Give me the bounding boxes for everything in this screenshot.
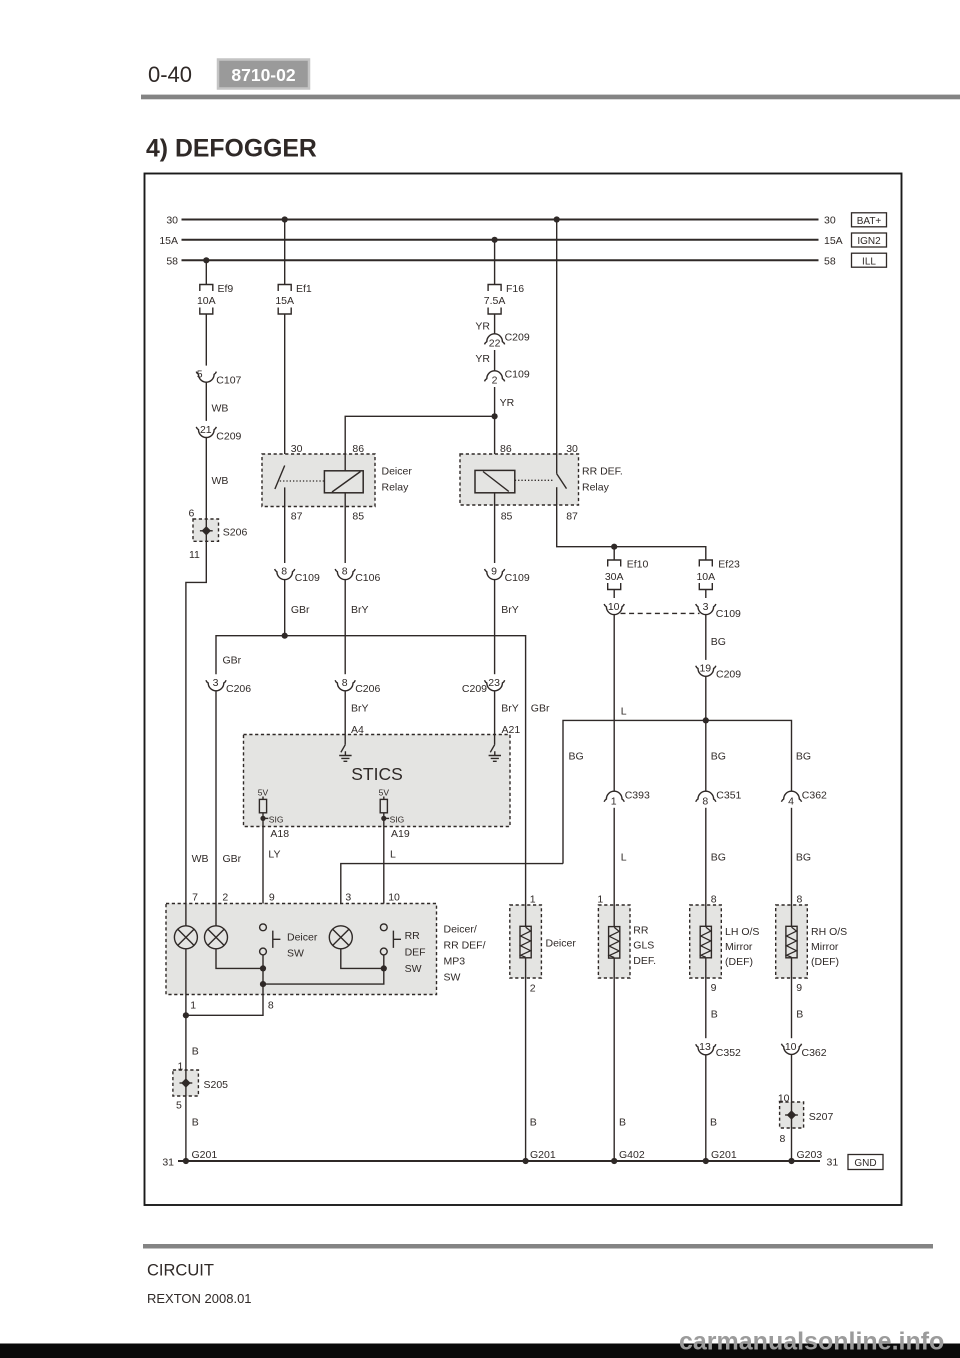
connector C109 pin 3 (696, 604, 716, 615)
wire B C352 to ground (705, 1055, 707, 1161)
svg-text:1: 1 (597, 894, 603, 906)
svg-text:C209: C209 (716, 669, 741, 681)
wire BG C351 to LH mirror (705, 808, 707, 926)
svg-text:A21: A21 (502, 724, 521, 736)
svg-text:3: 3 (345, 892, 351, 904)
net box IGN2 (852, 233, 887, 247)
svg-text:6: 6 (189, 507, 195, 519)
svg-text:86: 86 (352, 443, 364, 455)
svg-text:Deicer: Deicer (382, 466, 413, 478)
svg-text:C209: C209 (216, 431, 241, 443)
svg-text:BG: BG (711, 852, 726, 864)
connector C206 pin 8 (335, 680, 355, 691)
svg-text:1: 1 (530, 894, 536, 906)
wire BrY C206 to STICS A4 (344, 691, 346, 735)
connector C109 pin 9 (485, 569, 505, 580)
svg-text:WB: WB (212, 475, 229, 487)
svg-text:8: 8 (268, 1000, 274, 1012)
svg-text:YR: YR (475, 320, 490, 332)
wire S207 to ground (791, 1128, 793, 1161)
svg-text:0-40: 0-40 (148, 62, 192, 87)
svg-text:30: 30 (824, 215, 836, 227)
wire BrY C106 to C206 (344, 580, 346, 675)
fuse F16 7.5A (488, 285, 501, 315)
svg-text:Deicer: Deicer (546, 937, 577, 949)
svg-text:C209: C209 (505, 331, 530, 343)
wire L Ef10 down to C393 (613, 615, 615, 792)
svg-text:15A: 15A (159, 235, 178, 247)
svg-text:87: 87 (291, 511, 303, 523)
connector C206 pin 3 (206, 680, 226, 691)
svg-text:C362: C362 (802, 1047, 827, 1059)
svg-text:GBr: GBr (223, 655, 242, 667)
junction on rail 30 for RR DEF relay (554, 216, 560, 222)
wire 87 to C109 (284, 507, 286, 564)
svg-text:(DEF): (DEF) (811, 956, 839, 968)
junction on rail 15A for F16 (492, 237, 498, 243)
svg-text:ILL: ILL (862, 256, 876, 267)
connector C106 pin 8 (335, 569, 355, 580)
node YR junction (492, 413, 498, 419)
svg-text:(DEF): (DEF) (725, 956, 753, 968)
wire BG C362 to RH mirror (791, 808, 793, 926)
wire YR C209 to C109 (494, 350, 496, 371)
wire B C362 to S207 (791, 1054, 793, 1102)
svg-text:10A: 10A (696, 571, 715, 583)
svg-text:WB: WB (212, 403, 229, 415)
svg-text:Mirror: Mirror (811, 941, 839, 953)
svg-text:LY: LY (268, 849, 280, 861)
svg-text:21: 21 (200, 424, 212, 436)
svg-text:BrY: BrY (501, 604, 519, 616)
svg-text:Ef10: Ef10 (627, 558, 649, 570)
svg-text:15A: 15A (275, 295, 294, 307)
svg-text:DEF: DEF (405, 946, 426, 958)
wire 58 to fuse Ef9 (205, 260, 207, 284)
svg-text:8: 8 (797, 894, 803, 906)
svg-text:C362: C362 (802, 790, 827, 802)
svg-text:4: 4 (788, 795, 794, 807)
svg-text:8: 8 (342, 566, 348, 578)
connector C352 pin 13 (696, 1044, 716, 1055)
wire BG bus to MP3 lamp pin 3 (341, 864, 563, 904)
svg-text:A19: A19 (391, 828, 410, 840)
svg-text:RH O/S: RH O/S (811, 926, 847, 938)
wire L A19 to switch pin 10 (383, 827, 385, 924)
wire BrY C109 to C209 (494, 580, 496, 675)
relay switch blade 30-87 (557, 474, 567, 489)
svg-text:BG: BG (711, 636, 726, 648)
svg-text:RR: RR (633, 924, 649, 936)
svg-text:BG: BG (796, 751, 811, 763)
wire LY A18 to switch pin 9 (262, 827, 264, 924)
svg-text:L: L (621, 852, 627, 864)
wire 30 to relay pin 30 (556, 220, 558, 474)
svg-text:7.5A: 7.5A (484, 295, 506, 307)
svg-text:RR: RR (405, 930, 421, 942)
svg-text:10A: 10A (197, 295, 216, 307)
svg-text:MP3: MP3 (444, 956, 466, 968)
svg-text:58: 58 (166, 256, 178, 268)
svg-text:5V: 5V (379, 787, 390, 797)
svg-text:S206: S206 (223, 527, 248, 539)
deicer relay U1 (262, 443, 412, 523)
fuse Ef9 10A (200, 285, 213, 315)
svg-text:85: 85 (352, 511, 364, 523)
svg-text:DEF.: DEF. (633, 955, 656, 967)
RR DEF relay U2 (460, 443, 623, 523)
wire Ef23 to C109 pin 3 (705, 590, 707, 599)
wire WB C107 to C209 (205, 382, 207, 421)
svg-text:B: B (192, 1116, 199, 1128)
wire RR DEF 87 to fuse feeds (557, 505, 706, 560)
wire B RH mirror to C362 (791, 978, 793, 1038)
LH O/S mirror element R3 (690, 894, 760, 994)
svg-text:87: 87 (566, 511, 578, 523)
fuse Ef1 15A (278, 285, 291, 315)
svg-text:Ef9: Ef9 (218, 283, 234, 295)
svg-text:G203: G203 (797, 1149, 823, 1161)
svg-text:B: B (192, 1046, 199, 1058)
svg-text:CIRCUIT: CIRCUIT (147, 1262, 214, 1280)
wire pin 7 lamp to pin 1 (185, 949, 187, 1070)
bottom black bar (0, 1344, 960, 1358)
svg-text:13: 13 (699, 1041, 711, 1053)
junction on rail 30 for Ef1 (282, 216, 288, 222)
svg-text:L: L (390, 849, 396, 861)
net box BAT+ (852, 213, 887, 227)
svg-text:RR DEF/: RR DEF/ (444, 940, 486, 952)
svg-text:5: 5 (176, 1100, 182, 1112)
svg-text:Ef1: Ef1 (296, 283, 312, 295)
svg-text:31: 31 (162, 1157, 174, 1169)
connector C209 pin 19 (696, 666, 716, 677)
relay coil box 86-85 (475, 470, 515, 492)
svg-text:C109: C109 (505, 572, 530, 584)
footer rule (143, 1244, 933, 1249)
svg-text:C109: C109 (295, 572, 320, 584)
connector C107 pin 5 (196, 372, 216, 383)
svg-text:GBr: GBr (291, 604, 310, 616)
svg-text:1: 1 (190, 1000, 196, 1012)
dashed pair link C109 (621, 612, 700, 614)
relay coil box 86-85 (324, 471, 363, 493)
wire Ef9 to C107 (205, 314, 207, 366)
svg-text:30: 30 (566, 443, 578, 455)
svg-text:B: B (710, 1116, 717, 1128)
wire 30 to fuse Ef1 (284, 220, 286, 285)
svg-text:carmanualsonline.info: carmanualsonline.info (679, 1328, 944, 1356)
svg-text:30A: 30A (605, 571, 624, 583)
svg-text:A18: A18 (270, 828, 289, 840)
svg-text:C107: C107 (216, 374, 241, 386)
svg-text:10: 10 (388, 892, 400, 904)
svg-text:4) DEFOGGER: 4) DEFOGGER (146, 136, 317, 163)
svg-text:2: 2 (530, 982, 536, 994)
svg-text:30: 30 (291, 443, 303, 455)
svg-text:WB: WB (192, 853, 209, 865)
svg-text:9: 9 (269, 892, 275, 904)
svg-text:B: B (619, 1116, 626, 1128)
connector C209 pin 21 (196, 427, 216, 438)
svg-text:YR: YR (500, 397, 515, 409)
wire BG bus to C351 (705, 720, 707, 791)
svg-text:STICS: STICS (351, 764, 403, 784)
connector C209 pin 22 (485, 334, 505, 345)
svg-text:G201: G201 (530, 1149, 556, 1161)
svg-text:Relay: Relay (382, 482, 410, 494)
wire L C393 to RR GLS DEF (613, 808, 615, 927)
svg-text:22: 22 (489, 338, 501, 350)
svg-text:Relay: Relay (582, 482, 610, 494)
wire B LH mirror to C352 (705, 978, 707, 1038)
svg-text:B: B (711, 1009, 718, 1021)
svg-text:10: 10 (785, 1041, 797, 1053)
STICS module (244, 735, 511, 827)
header rule (141, 95, 960, 100)
svg-text:SIG: SIG (390, 815, 405, 825)
internal wiring (216, 949, 263, 969)
connector C393 pin 1 (604, 791, 624, 802)
wire Ef10 to C109 pin 10 (613, 590, 615, 599)
wire BG C209 to BG bus (705, 676, 707, 720)
svg-text:LH O/S: LH O/S (725, 926, 759, 938)
GBr bus (216, 636, 526, 905)
wire deicer relay 85 to C106 (344, 507, 346, 564)
svg-text:G201: G201 (711, 1149, 737, 1161)
connector C362 pin 10 (781, 1044, 801, 1055)
svg-text:SW: SW (444, 972, 461, 984)
svg-text:2: 2 (492, 375, 498, 387)
svg-text:C206: C206 (355, 683, 380, 695)
svg-text:85: 85 (501, 511, 513, 523)
svg-text:8710-02: 8710-02 (231, 65, 295, 85)
svg-text:G402: G402 (619, 1149, 645, 1161)
svg-text:8: 8 (711, 894, 717, 906)
svg-text:SW: SW (287, 947, 304, 959)
svg-text:SIG: SIG (269, 815, 284, 825)
A21 internal ground (494, 735, 496, 745)
svg-text:58: 58 (824, 256, 836, 268)
relay link dotted (515, 479, 553, 481)
wire GBr C206 to switch pin 2 (215, 691, 217, 904)
wire B RR GLS to ground (613, 978, 615, 1161)
wire BrY C209 to STICS A21 (494, 691, 496, 735)
connector C351 pin 8 (696, 791, 716, 802)
svg-text:Deicer/: Deicer/ (444, 924, 477, 936)
svg-text:S207: S207 (809, 1111, 834, 1123)
svg-text:S205: S205 (204, 1079, 229, 1091)
svg-text:23: 23 (488, 677, 500, 689)
svg-text:9: 9 (711, 982, 717, 994)
wire GBr C109 to GBr bus (284, 580, 286, 636)
RH O/S mirror element R4 (776, 894, 847, 994)
connector C109 pin 8 (275, 569, 295, 580)
svg-text:F16: F16 (506, 283, 524, 295)
svg-text:IGN2: IGN2 (857, 236, 881, 247)
svg-text:5V: 5V (258, 787, 269, 797)
svg-text:L: L (621, 706, 627, 718)
wire B S205 to ground (185, 1096, 187, 1161)
RR DEF SW contacts pin 10 (380, 924, 387, 931)
svg-text:GLS: GLS (633, 940, 654, 952)
lamp pin 2 (215, 904, 217, 926)
svg-text:Mirror: Mirror (725, 941, 753, 953)
svg-text:RR DEF.: RR DEF. (582, 466, 623, 478)
svg-text:2: 2 (222, 892, 228, 904)
svg-text:BAT+: BAT+ (857, 216, 882, 227)
wire 15A to fuse F16 (494, 240, 496, 285)
svg-text:YR: YR (475, 353, 490, 365)
svg-text:C206: C206 (226, 683, 251, 695)
net box GND (848, 1155, 883, 1170)
svg-text:C393: C393 (625, 790, 650, 802)
power rail 58 (ILL) (182, 259, 819, 261)
svg-text:9: 9 (796, 982, 802, 994)
svg-text:10: 10 (608, 601, 620, 613)
A4 internal ground (344, 735, 346, 745)
svg-text:BrY: BrY (501, 703, 519, 715)
wire 85 to C109 pin 9 (494, 505, 496, 563)
svg-text:Deicer: Deicer (287, 931, 318, 943)
deicer / RR DEF / MP3 switch module (166, 892, 437, 995)
RR GLS DEF element R2 (597, 894, 656, 979)
BG bus node (703, 717, 709, 723)
wire BG C109 to C209 pin 19 (705, 615, 707, 660)
svg-text:1: 1 (611, 795, 617, 807)
deicer element R1 (510, 894, 577, 995)
power rail 15A (IGN2) (182, 239, 819, 241)
svg-text:8: 8 (702, 795, 708, 807)
relay link dotted (280, 480, 325, 482)
wire to deicer relay coil 86 (345, 416, 494, 454)
svg-text:7: 7 (192, 892, 198, 904)
svg-text:C352: C352 (716, 1047, 741, 1059)
svg-text:SW: SW (405, 963, 422, 975)
svg-text:GND: GND (854, 1158, 876, 1169)
wire B deicer element to ground (525, 978, 527, 1161)
connector C209 pin 23 (485, 680, 505, 691)
wire WB S206 down with jog (186, 541, 206, 903)
svg-text:19: 19 (699, 663, 711, 675)
connector C362 pin 4 (781, 791, 801, 802)
svg-text:GBr: GBr (531, 703, 550, 715)
ground bus 31 (178, 1160, 820, 1162)
svg-text:3: 3 (703, 601, 709, 613)
svg-text:BG: BG (711, 751, 726, 763)
svg-text:REXTON 2008.01: REXTON 2008.01 (147, 1291, 252, 1306)
wire to fuse Ef10 (613, 547, 615, 560)
deicer SW contacts pin 9 (260, 924, 267, 931)
svg-text:30: 30 (166, 215, 178, 227)
wire pin 8 to node (186, 984, 263, 1015)
diagram frame (145, 174, 902, 1206)
svg-text:BrY: BrY (351, 604, 369, 616)
svg-text:B: B (530, 1116, 537, 1128)
svg-text:3: 3 (213, 677, 219, 689)
svg-text:8: 8 (342, 677, 348, 689)
svg-text:8: 8 (780, 1133, 786, 1145)
svg-text:BG: BG (796, 852, 811, 864)
junction on rail 58 for Ef9 (203, 257, 209, 263)
wire WB C209 to S206 (205, 438, 207, 520)
svg-text:9: 9 (491, 566, 497, 578)
lamp pin 7 (185, 904, 187, 926)
svg-text:C351: C351 (716, 790, 741, 802)
svg-text:GBr: GBr (223, 853, 242, 865)
svg-text:Ef23: Ef23 (718, 558, 740, 570)
net box ILL (852, 253, 887, 267)
connector C109 pin 10 (604, 604, 624, 615)
svg-text:15A: 15A (824, 235, 843, 247)
svg-text:G201: G201 (192, 1149, 218, 1161)
svg-text:11: 11 (189, 549, 200, 561)
wire Ef1 to relay pin 30 (284, 314, 286, 466)
BG bus (563, 720, 792, 863)
svg-text:86: 86 (500, 443, 512, 455)
fuse Ef23 10A (699, 560, 712, 590)
svg-text:C106: C106 (355, 572, 380, 584)
wire YR C109 to junction (494, 387, 496, 470)
connector C109 pin 2 (485, 371, 505, 382)
svg-text:BG: BG (569, 751, 584, 763)
svg-text:C209: C209 (462, 683, 487, 695)
wire YR F16 to C209 (494, 314, 496, 334)
svg-text:C109: C109 (505, 368, 530, 380)
svg-text:BrY: BrY (351, 703, 369, 715)
fuse Ef10 30A (608, 560, 621, 590)
power rail 30 (BAT+) (182, 219, 819, 221)
svg-text:8: 8 (281, 566, 287, 578)
header code box (218, 60, 309, 89)
svg-text:B: B (796, 1009, 803, 1021)
svg-text:5: 5 (197, 369, 203, 381)
svg-text:C109: C109 (716, 608, 741, 620)
relay switch blade 30-87 (275, 466, 285, 490)
lamp pin 3 (329, 926, 352, 949)
svg-text:31: 31 (827, 1157, 839, 1169)
